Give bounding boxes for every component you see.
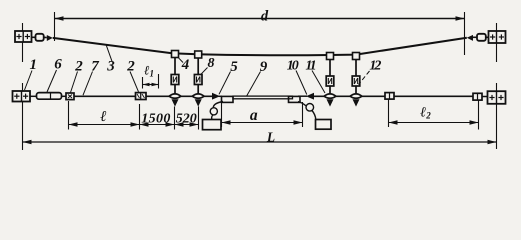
- svg-text:L: L: [266, 130, 275, 145]
- svg-text:5: 5: [230, 59, 238, 75]
- svg-text:520: 520: [176, 111, 197, 126]
- svg-text:2: 2: [126, 58, 135, 74]
- svg-text:6: 6: [54, 56, 62, 72]
- svg-text:a: a: [250, 107, 258, 124]
- svg-text:1: 1: [29, 57, 37, 73]
- svg-text:7: 7: [91, 58, 99, 74]
- svg-text:9: 9: [260, 59, 268, 75]
- svg-text:1500: 1500: [141, 111, 171, 126]
- svg-text:11: 11: [305, 59, 315, 74]
- svg-text:2: 2: [74, 58, 83, 74]
- svg-text:8: 8: [208, 56, 215, 71]
- svg-text:4: 4: [181, 57, 190, 73]
- svg-text:ℓ: ℓ: [100, 109, 106, 125]
- svg-text:d: d: [261, 9, 269, 25]
- svg-text:3: 3: [106, 58, 115, 74]
